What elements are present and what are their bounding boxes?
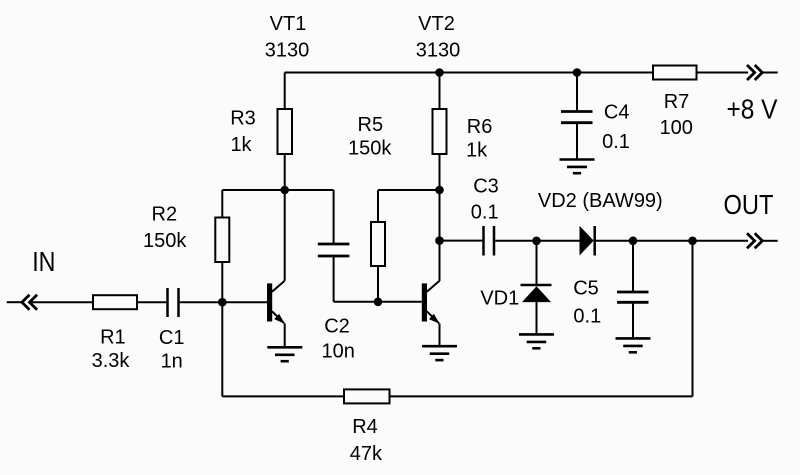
wire R2 bottom to input node	[221, 262, 223, 302]
wire OUT line: node240 to C3	[440, 240, 483, 242]
wire feedback right riser	[692, 241, 694, 397]
wire OUT stub	[762, 240, 777, 242]
svg-text:47k: 47k	[350, 443, 383, 465]
wire top rail right stub after arrow	[762, 72, 777, 74]
node dot rail/R6	[435, 68, 444, 77]
wire C4 column from rail	[576, 73, 578, 112]
wire C5 bottom to ground	[632, 302, 634, 338]
wire feedback bottom left segment	[222, 395, 344, 397]
svg-text:R3: R3	[230, 108, 256, 130]
wire top rail left segment	[285, 72, 748, 74]
wire Q2 base node to base bar	[378, 301, 422, 303]
capacitor C4	[561, 112, 593, 123]
node dot feedback/OUT	[688, 237, 697, 246]
svg-text:C5: C5	[573, 278, 599, 300]
svg-text:3130: 3130	[265, 40, 310, 62]
wire C5 node to feedback node	[633, 240, 693, 242]
svg-text:0.1: 0.1	[573, 306, 601, 328]
wire collector column node190 to node240	[439, 190, 441, 241]
svg-text:R4: R4	[352, 416, 378, 438]
svg-text:OUT: OUT	[724, 189, 774, 220]
input arrow IN (double chevron)	[22, 295, 37, 310]
svg-text:VD2 (BAW99): VD2 (BAW99)	[538, 190, 663, 212]
svg-text:R7: R7	[664, 91, 690, 113]
wire R6 column x=439.5 top	[439, 73, 441, 110]
node dot Q2 base	[374, 298, 383, 307]
wire node240 to Q2 collector	[439, 241, 441, 281]
svg-text:C3: C3	[473, 176, 499, 198]
node dot VD1 top	[532, 237, 541, 246]
wire node(285,190) to C2 top	[285, 189, 334, 191]
ground VD1	[519, 334, 554, 348]
ground Q1	[267, 347, 302, 361]
wire C5 node down to C5	[632, 241, 634, 292]
svg-text:0.1: 0.1	[602, 131, 630, 153]
svg-text:1k: 1k	[466, 140, 488, 162]
svg-text:3.3k: 3.3k	[92, 350, 131, 372]
ground Q2	[422, 346, 457, 360]
wire R3 bottom to node	[284, 154, 286, 190]
svg-text:C1: C1	[159, 327, 185, 349]
svg-text:R6: R6	[467, 116, 493, 138]
node dot R6 bottom	[435, 186, 444, 195]
svg-text:C2: C2	[324, 316, 350, 338]
svg-text:150k: 150k	[143, 230, 187, 252]
node dot collector/C3	[435, 236, 444, 245]
ground C5	[616, 338, 651, 352]
wire C3 to VD1 node	[495, 240, 536, 242]
wire R5 bottom to Q2 base node	[377, 266, 379, 302]
capacitor C2	[318, 244, 350, 256]
svg-text:150k: 150k	[348, 138, 392, 160]
svg-text:IN: IN	[32, 246, 55, 277]
ground C4	[560, 160, 595, 174]
capacitor C3	[484, 226, 495, 256]
resistor R5	[371, 222, 385, 266]
node dot rail/C4	[573, 68, 582, 77]
diode VD2 (BAW99)	[580, 226, 595, 256]
resistor R2	[215, 218, 229, 263]
wire VD1 node to VD2	[537, 240, 580, 242]
wire node(285,190) to R2 top	[222, 189, 284, 191]
svg-text:1k: 1k	[230, 134, 252, 156]
diode VD1	[521, 285, 552, 334]
wire VD2 to C5 node	[595, 240, 633, 242]
wire feedback bottom right segment	[390, 395, 693, 397]
wire VT1 collector column x=284.7	[284, 73, 286, 110]
svg-text:VT1: VT1	[270, 13, 307, 35]
svg-text:0.1: 0.1	[471, 202, 499, 224]
svg-text:100: 100	[660, 117, 693, 139]
svg-text:R2: R2	[152, 204, 178, 226]
wire feedback: input node down	[221, 302, 223, 396]
capacitor C1	[168, 288, 179, 317]
svg-text:1n: 1n	[161, 351, 183, 373]
power arrow +8V (double chevron)	[747, 65, 762, 80]
resistor R4	[344, 389, 390, 403]
wire chevron to R1	[30, 301, 94, 303]
node dot R3 bottom	[280, 186, 289, 195]
wire IN lead	[7, 301, 22, 303]
wire feedback node to OUT arrow	[693, 240, 749, 242]
transistor VT1 (Q1)	[267, 190, 285, 347]
wire C4 bottom to ground	[576, 123, 578, 160]
svg-text:VD1: VD1	[480, 288, 519, 310]
node dot Q1 base / input	[218, 298, 227, 307]
transistor VT2 (Q2)	[422, 281, 440, 346]
wire R6 bottom to node	[439, 154, 441, 190]
node dot C5 top	[629, 237, 638, 246]
wire C1 to input node	[180, 301, 223, 303]
capacitor C5	[617, 292, 649, 302]
svg-text:C4: C4	[604, 102, 630, 124]
wire input node to Q1 base	[222, 301, 267, 303]
svg-text:R1: R1	[100, 327, 126, 349]
resistor R1	[93, 295, 137, 309]
svg-text:+8 V: +8 V	[727, 94, 778, 125]
resistor R3	[278, 109, 293, 154]
svg-text:10n: 10n	[322, 341, 355, 363]
svg-text:3130: 3130	[416, 40, 461, 62]
wire C2 bottom to Q2 base node	[333, 256, 335, 302]
wire R1 to C1	[137, 301, 166, 303]
svg-text:R5: R5	[358, 114, 384, 136]
output arrow OUT (double chevron)	[747, 233, 762, 248]
resistor R6	[433, 109, 447, 154]
resistor R7	[653, 66, 697, 80]
wire VD1 node down to diode	[536, 241, 538, 285]
wire node(439,190) to R5 top	[378, 189, 440, 191]
svg-text:VT2: VT2	[418, 13, 455, 35]
